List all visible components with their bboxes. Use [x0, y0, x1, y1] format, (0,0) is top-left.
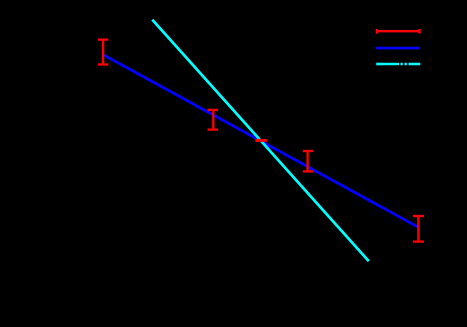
- error bar 3 (small): [255, 139, 267, 142]
- legend blue line sample: [376, 47, 420, 50]
- error bar 4: [303, 151, 314, 171]
- cyan theory line: [152, 20, 368, 262]
- legend cyan dash-dot sample: [376, 63, 420, 66]
- error bar 1: [98, 40, 108, 65]
- blue fit line: [104, 55, 418, 227]
- error bar 5: [413, 216, 424, 242]
- legend errorbar sample (red): [377, 29, 420, 34]
- error bar 2: [208, 110, 219, 130]
